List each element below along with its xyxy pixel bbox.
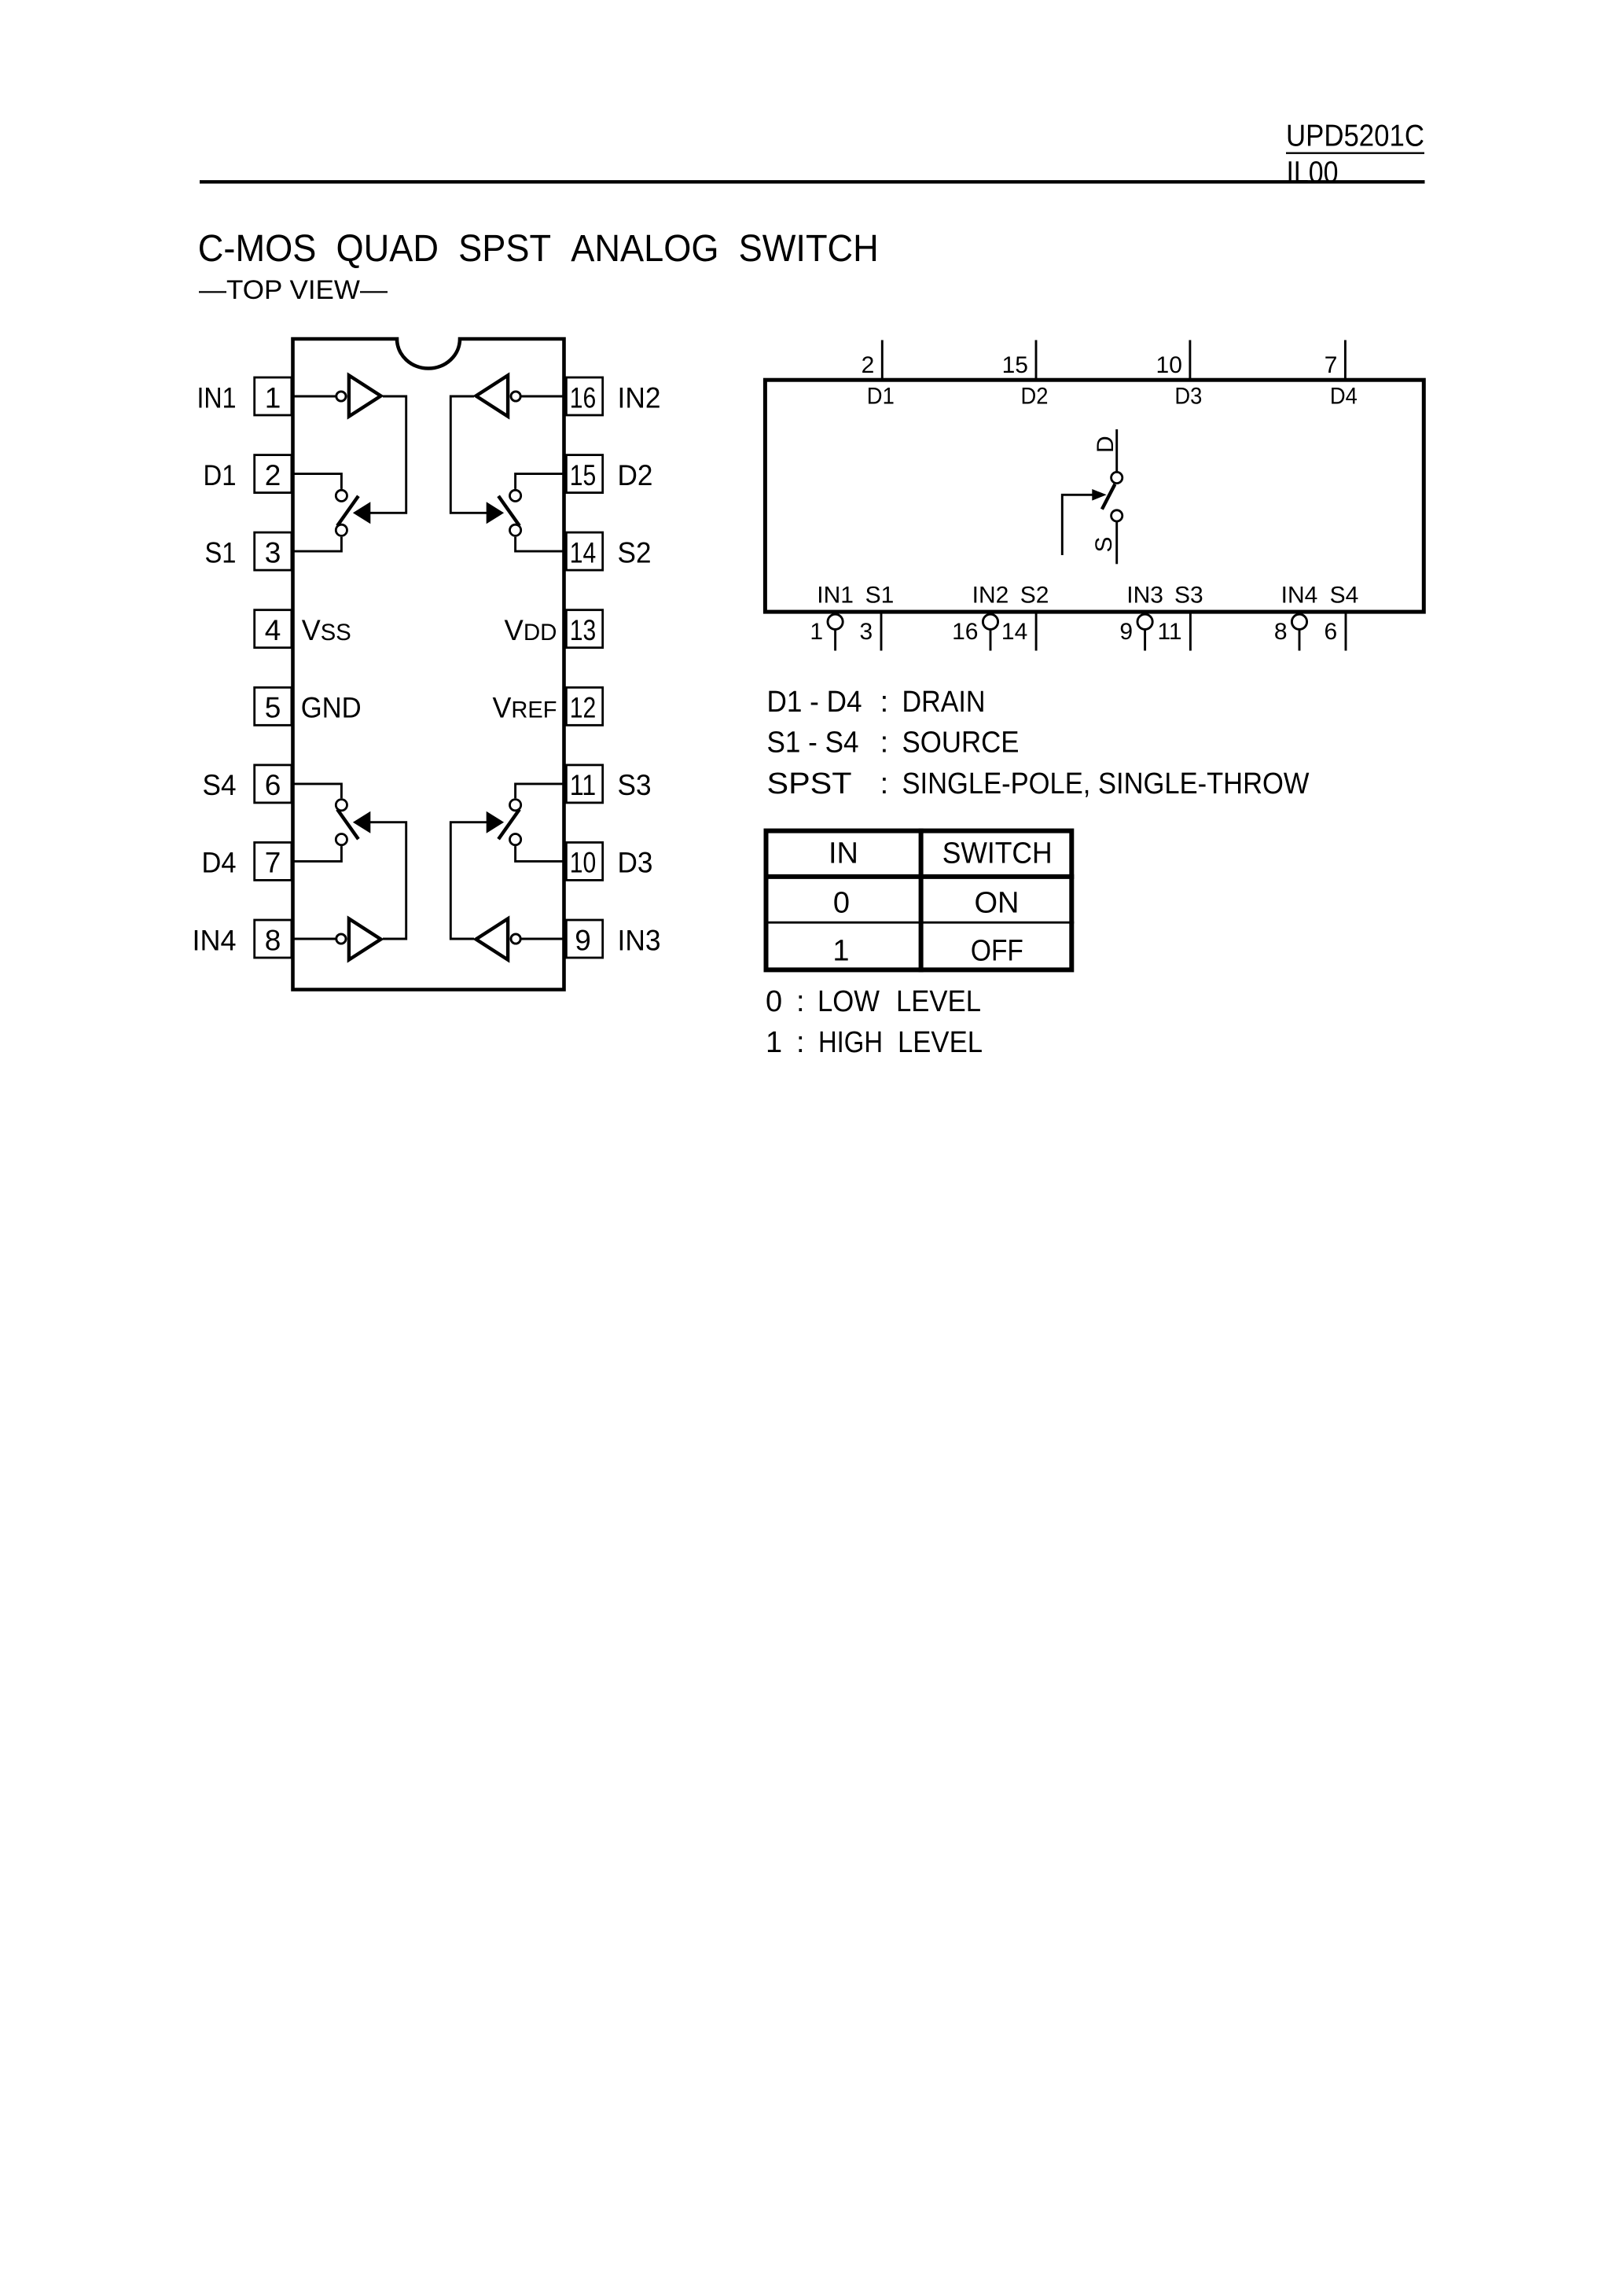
- buffer A4 triangle: [349, 918, 381, 959]
- pin 4 box: [255, 610, 292, 648]
- pin 11 box: [566, 765, 602, 803]
- svg-text:2: 2: [862, 352, 875, 378]
- functional block outline: [765, 380, 1424, 612]
- buffer A1 triangle: [349, 375, 381, 416]
- wire pin14 S2 to switch SW2 bottom contact: [516, 537, 565, 551]
- source pin stub S1 (pin 3): [880, 612, 883, 651]
- svg-text:12: 12: [570, 692, 597, 724]
- svg-text:D3: D3: [618, 847, 653, 879]
- svg-text:8: 8: [265, 924, 281, 956]
- truth table header divider: [764, 874, 1075, 879]
- svg-text:VDD: VDD: [505, 614, 557, 646]
- switch SW1 bottom contact: [336, 524, 347, 535]
- drain pin stub D1 (pin 2): [881, 340, 884, 381]
- svg-text:14: 14: [570, 536, 597, 568]
- svg-text:D: D: [1093, 436, 1119, 453]
- source pin stub S2 (pin 14): [1035, 612, 1038, 651]
- svg-text:IN1: IN1: [197, 381, 237, 414]
- header part-number underline: [1286, 152, 1424, 153]
- svg-text:—TOP VIEW—: —TOP VIEW—: [199, 275, 388, 305]
- wire pin1 to buffer A1 input: [295, 396, 336, 398]
- control input stub IN3 (pin 9) with bubble: [1137, 614, 1152, 629]
- svg-text:D3: D3: [1174, 384, 1202, 410]
- truth table row divider: [764, 922, 1075, 924]
- arrowhead into switch SW3: [487, 811, 504, 833]
- switch SW4 arm: [337, 809, 358, 839]
- svg-text:14: 14: [1001, 619, 1027, 645]
- svg-text:11: 11: [570, 769, 597, 801]
- svg-text:10: 10: [570, 847, 597, 879]
- internal switch source lead wire: [1115, 521, 1118, 564]
- svg-text:16: 16: [570, 381, 597, 414]
- svg-text:VSS: VSS: [302, 614, 351, 646]
- control input stub IN1 (pin 1) with bubble: [828, 614, 843, 629]
- svg-text:IL00: IL00: [1287, 156, 1339, 189]
- svg-text:9: 9: [1119, 619, 1133, 645]
- svg-text:S: S: [1091, 536, 1117, 552]
- svg-text:S4: S4: [203, 769, 237, 801]
- svg-text:IN4: IN4: [193, 924, 237, 956]
- svg-text:D4: D4: [202, 847, 237, 879]
- pin 3 box: [255, 532, 292, 570]
- truth table column divider: [919, 829, 924, 973]
- control input stub IN2 (pin 16) with bubble: [983, 614, 998, 629]
- switch SW3 arm: [498, 809, 520, 839]
- internal switch top contact: [1111, 472, 1122, 483]
- svg-text:S1: S1: [205, 536, 237, 568]
- wire buffer A1 output to switch SW1: [370, 396, 406, 513]
- switch SW4 bottom contact: [336, 834, 347, 845]
- svg-text:IN: IN: [829, 837, 858, 870]
- pin 7 box: [255, 842, 292, 880]
- wire buffer A2 output to switch SW2: [450, 396, 487, 513]
- svg-text:D2: D2: [618, 459, 653, 491]
- pin 14 box: [566, 532, 602, 570]
- svg-text:GND: GND: [301, 692, 362, 724]
- svg-text:2: 2: [265, 459, 281, 491]
- svg-text:ON: ON: [975, 887, 1020, 920]
- arrowhead into switch SW1: [353, 502, 370, 524]
- svg-text:6: 6: [265, 769, 281, 801]
- svg-text:S2: S2: [1020, 583, 1049, 609]
- pin 2 box: [255, 455, 292, 493]
- svg-text:9: 9: [575, 924, 591, 956]
- buffer A2 triangle: [476, 375, 509, 416]
- svg-text:S3: S3: [618, 769, 652, 801]
- header horizontal rule: [200, 180, 1425, 183]
- svg-text:D4: D4: [1330, 384, 1358, 410]
- svg-text:D1: D1: [204, 459, 237, 491]
- svg-text:1: 1: [265, 381, 281, 414]
- switch SW3 bottom contact: [510, 834, 521, 845]
- switch SW4 top contact: [336, 800, 347, 811]
- buffer A4 input bubble: [336, 934, 346, 944]
- buffer A3 input bubble: [511, 934, 520, 944]
- truth table outer border: [766, 831, 1072, 970]
- arrowhead into switch SW2: [487, 502, 504, 524]
- svg-text:7: 7: [1325, 352, 1338, 378]
- pin 8 box: [255, 920, 292, 958]
- svg-text:11: 11: [1157, 619, 1181, 645]
- svg-text:IN2: IN2: [972, 583, 1009, 609]
- svg-text:3: 3: [860, 619, 873, 645]
- svg-text:S1: S1: [865, 583, 895, 609]
- pin 12 box: [566, 687, 602, 725]
- buffer A2 input bubble: [511, 392, 520, 401]
- svg-text:1: 1: [832, 935, 849, 968]
- svg-text:VREF: VREF: [493, 692, 557, 724]
- wire pin10 D3 to switch SW3 bottom contact: [516, 846, 565, 861]
- wire pin7 D4 to switch SW4 bottom contact: [292, 846, 341, 861]
- svg-text:15: 15: [1002, 352, 1028, 378]
- svg-text:0:LOWLEVEL: 0:LOWLEVEL: [766, 985, 981, 1018]
- svg-text:1: 1: [810, 619, 823, 645]
- pin 16 box: [566, 377, 602, 415]
- wire pin3 S1 to switch SW1 bottom contact: [292, 537, 341, 551]
- svg-text:16: 16: [952, 619, 978, 645]
- svg-text:S3: S3: [1174, 583, 1203, 609]
- switch SW2 top contact: [510, 490, 521, 501]
- wire pin11 S3 to switch SW3 top contact: [516, 784, 565, 798]
- control input stub IN4 (pin 8) with bubble: [1291, 614, 1306, 629]
- switch SW2 bottom contact: [510, 524, 521, 535]
- wire buffer A4 output to switch SW4: [370, 822, 406, 939]
- source pin stub S4 (pin 6): [1345, 612, 1347, 651]
- control drive wire into internal switch: [1062, 495, 1092, 555]
- svg-text:3: 3: [265, 536, 281, 568]
- svg-text:S4: S4: [1330, 583, 1359, 609]
- svg-text:D1: D1: [867, 384, 895, 410]
- svg-text:IN1: IN1: [817, 583, 854, 609]
- buffer A1 input bubble: [336, 392, 346, 401]
- wire pin6 S4 to switch SW4 top contact: [292, 784, 341, 798]
- svg-text:UPD5201C: UPD5201C: [1286, 119, 1424, 153]
- svg-text:4: 4: [265, 614, 281, 646]
- svg-text:IN3: IN3: [618, 924, 661, 956]
- svg-text:10: 10: [1156, 352, 1182, 378]
- wire pin9 to buffer A3 input: [522, 938, 563, 940]
- svg-text:C-MOS QUAD SPST ANALOG SWI: C-MOS QUAD SPST ANALOG SWITCH: [198, 228, 879, 270]
- svg-text:1:HIGHLEVEL: 1:HIGHLEVEL: [766, 1026, 983, 1059]
- svg-text:5: 5: [265, 692, 281, 724]
- arrowhead onto internal switch arm: [1092, 489, 1106, 501]
- wire buffer A3 output to switch SW3: [450, 822, 487, 939]
- drain pin stub D4 (pin 7): [1344, 340, 1347, 381]
- switch SW2 arm: [498, 496, 520, 526]
- arrowhead into switch SW4: [353, 811, 370, 833]
- svg-text:0: 0: [833, 887, 850, 920]
- pin 10 box: [566, 842, 602, 880]
- internal switch arm: [1102, 484, 1115, 510]
- svg-text:SWITCH: SWITCH: [942, 837, 1053, 870]
- wire pin16 to buffer A2 input: [522, 396, 563, 398]
- svg-text:15: 15: [570, 459, 597, 491]
- svg-text:7: 7: [265, 847, 281, 879]
- switch SW1 top contact: [336, 490, 347, 501]
- pin 6 box: [255, 765, 292, 803]
- svg-text:OFF: OFF: [971, 935, 1023, 968]
- wire pin8 to buffer A4 input: [295, 938, 336, 940]
- svg-text:SPST:SINGLE-POLE, SINGLE-THROW: SPST:SINGLE-POLE, SINGLE-THROW: [767, 767, 1310, 800]
- svg-text:IN2: IN2: [618, 381, 661, 414]
- pin 5 box: [255, 687, 292, 725]
- switch SW3 top contact: [510, 800, 521, 811]
- wire pin2 D1 to switch SW1 top contact: [292, 474, 341, 489]
- svg-text:IN3: IN3: [1126, 583, 1163, 609]
- internal switch drain lead wire: [1115, 429, 1118, 472]
- svg-text:13: 13: [570, 614, 597, 646]
- pin 15 box: [566, 455, 602, 493]
- svg-text:IN4: IN4: [1281, 583, 1318, 609]
- svg-text:S2: S2: [618, 536, 652, 568]
- buffer A3 triangle: [476, 918, 509, 959]
- internal switch bottom contact: [1111, 510, 1122, 521]
- switch SW1 arm: [337, 496, 358, 526]
- svg-text:6: 6: [1325, 619, 1338, 645]
- pin 1 box: [255, 377, 292, 415]
- svg-text:8: 8: [1274, 619, 1288, 645]
- source pin stub S3 (pin 11): [1189, 612, 1192, 651]
- drain pin stub D3 (pin 10): [1189, 340, 1191, 381]
- drain pin stub D2 (pin 15): [1035, 340, 1038, 381]
- pin 9 box: [566, 920, 602, 958]
- pin 13 box: [566, 610, 602, 648]
- svg-text:D2: D2: [1021, 384, 1049, 410]
- DIP-16 package body U1 outline with index notch: [293, 339, 564, 990]
- wire pin15 D2 to switch SW2 top contact: [516, 474, 565, 489]
